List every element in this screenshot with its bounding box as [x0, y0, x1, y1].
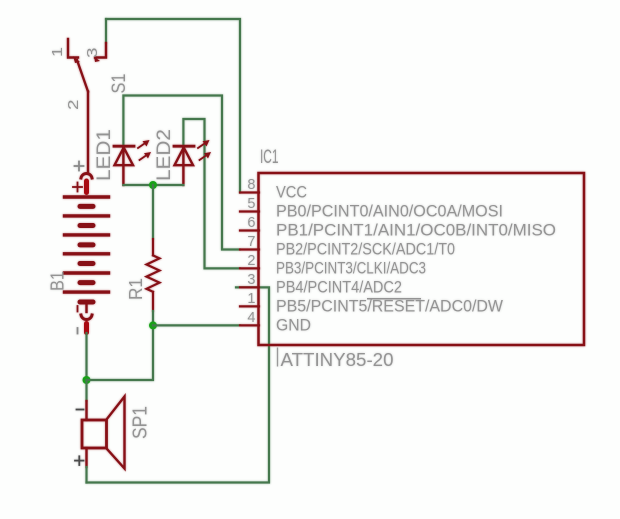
- svg-text:IC1: IC1: [260, 146, 279, 168]
- svg-text:GND: GND: [276, 317, 311, 335]
- origin tick: [277, 348, 279, 367]
- IC U1 pin stubs: [240, 193, 259, 326]
- LED LED1 wire top: [123, 96, 240, 250]
- svg-text:6: 6: [247, 215, 255, 231]
- switch S1: [68, 39, 106, 172]
- svg-text:5: 5: [247, 196, 255, 212]
- svg-text:VCC: VCC: [276, 184, 307, 202]
- node battery/speaker junction: [83, 376, 91, 384]
- svg-text:2: 2: [247, 253, 255, 269]
- svg-text:S1: S1: [109, 74, 130, 94]
- soft halo duplicate of schematic: [47, 19, 585, 483]
- wire junction to R1 bottom: [87, 325, 154, 380]
- svg-text:LED2: LED2: [154, 129, 175, 181]
- wire bottom from speaker to IC pin3: [87, 287, 270, 482]
- svg-text:SP1: SP1: [130, 406, 152, 439]
- RESET overline: [367, 298, 421, 300]
- wire junction to R1 top: [152, 185, 154, 239]
- speaker SP1 lead bottom: [85, 448, 87, 467]
- wire S1 pin3 vertical: [105, 19, 107, 43]
- LED LED2 arrows: [198, 140, 211, 160]
- svg-text:B1: B1: [47, 271, 68, 291]
- battery B1 minus tick red: [77, 306, 79, 312]
- svg-text:1: 1: [247, 291, 255, 307]
- speaker SP1: [82, 420, 107, 448]
- wire battery to junction: [85, 333, 87, 380]
- LED LED2: [174, 146, 194, 185]
- wire R1 bottom to node: [152, 311, 154, 325]
- svg-text:PB4/PCINT4/ADC2: PB4/PCINT4/ADC2: [276, 279, 402, 297]
- svg-text:2: 2: [66, 100, 82, 111]
- svg-text:PB3/PCINT3/CLKI/ADC3: PB3/PCINT3/CLKI/ADC3: [276, 260, 426, 278]
- svg-text:1: 1: [50, 47, 66, 57]
- switch S1 contact wedge pin3: [94, 57, 100, 63]
- battery B1 plus sign gray: [75, 162, 84, 171]
- svg-text:PB0/PCINT0/AIN0/OC0A/MOSI: PB0/PCINT0/AIN0/OC0A/MOSI: [276, 203, 503, 221]
- svg-text:4: 4: [247, 310, 255, 326]
- switch S1 contact wedge pin1: [73, 56, 80, 63]
- battery B1: [65, 173, 109, 332]
- LED LED1 arrows: [138, 140, 151, 160]
- svg-text:7: 7: [247, 234, 255, 250]
- wire LED bottoms: [123, 184, 183, 186]
- svg-text:PB2/PCINT2/SCK/ADC1/T0: PB2/PCINT2/SCK/ADC1/T0: [276, 241, 455, 259]
- battery B1 plus sign red: [73, 183, 82, 192]
- speaker SP1 minus sign: [77, 409, 84, 411]
- svg-text:PB1/PCINT1/AIN1/OC0B/INT0/MISO: PB1/PCINT1/AIN1/OC0B/INT0/MISO: [276, 222, 556, 240]
- svg-text:R1: R1: [125, 278, 146, 300]
- resistor R1: [147, 239, 160, 311]
- IC U1 box: [259, 173, 585, 345]
- wire node to IC pin4: [153, 324, 240, 326]
- svg-text:3: 3: [247, 272, 255, 288]
- wire top from S1 pin3 to IC pin8: [106, 19, 240, 193]
- node LED junction: [149, 181, 157, 189]
- svg-text:ATTINY85-20: ATTINY85-20: [281, 350, 394, 370]
- speaker SP1 lead top: [85, 380, 87, 401]
- svg-text:3: 3: [85, 48, 101, 59]
- speaker SP1 plus sign: [75, 456, 84, 465]
- LED LED1: [114, 146, 134, 185]
- battery B1 minus tick gray: [77, 328, 79, 334]
- LED LED2 wire top: [183, 119, 240, 268]
- svg-text:PB5/PCINT5/RESET/ADC0/DW: PB5/PCINT5/RESET/ADC0/DW: [276, 298, 503, 316]
- node R1 junction: [149, 321, 157, 329]
- svg-text:8: 8: [247, 177, 255, 193]
- svg-text:LED1: LED1: [94, 129, 115, 181]
